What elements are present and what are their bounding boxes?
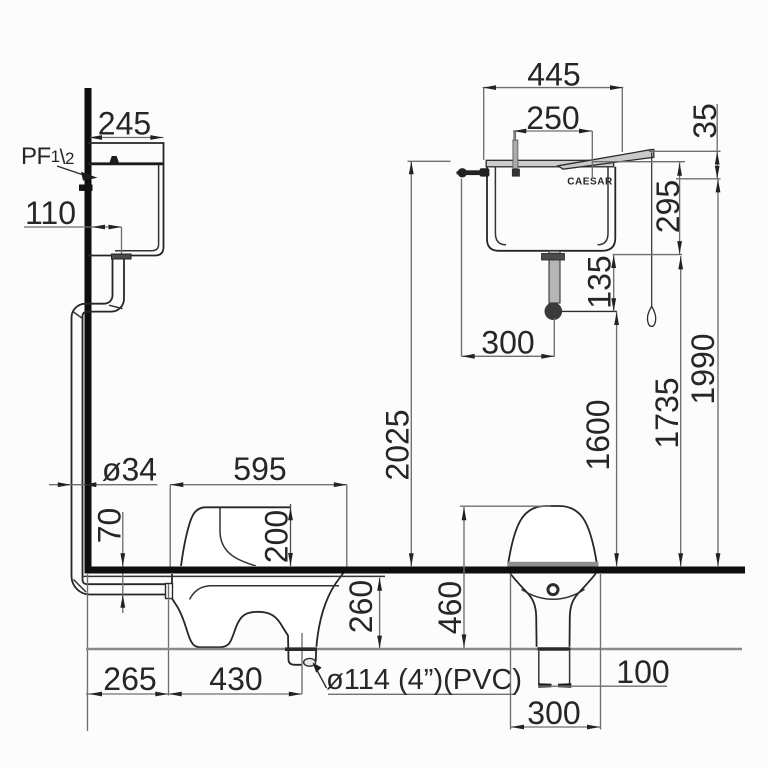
svg-text:300: 300 [481, 325, 534, 361]
high tank lid seam [88, 162, 164, 165]
dimension 595 [170, 484, 347, 486]
wall [85, 88, 92, 574]
flush pipe: down run, upper elbows, wall drop [83, 259, 167, 584]
base foot marks / 100 arrows [538, 683, 551, 688]
dimension 70 [122, 512, 124, 613]
extension ball centre [553, 318, 555, 356]
dimension 35 [716, 104, 718, 179]
svg-text:ø114 (4”)(PVC): ø114 (4”)(PVC) [326, 664, 522, 696]
svg-text:CAESAR: CAESAR [567, 177, 613, 188]
dimension o34 [49, 484, 158, 486]
svg-text:295: 295 [650, 180, 686, 233]
supply fitting on wall [79, 185, 93, 191]
flush pipe (front) [549, 251, 560, 303]
bowl front view: dome [508, 506, 596, 563]
extension 300 front left [510, 574, 512, 730]
svg-text:265: 265 [103, 661, 156, 697]
pipe end cap [166, 584, 168, 594]
svg-text:1600: 1600 [580, 399, 616, 470]
extension 35 bottom [676, 178, 721, 180]
floor dark segment under pedestal [538, 647, 571, 651]
high tank inner wall [115, 164, 159, 251]
dimension 1600 [616, 312, 618, 567]
dimension 445 [483, 87, 624, 89]
extension 595 left [169, 485, 171, 571]
svg-text:1990: 1990 [685, 333, 721, 404]
outlet centre line [301, 633, 303, 694]
leader o114 [314, 665, 327, 689]
bolt hole [548, 585, 558, 595]
svg-text:250: 250 [526, 100, 579, 136]
supply stop valve [457, 171, 463, 174]
dimension 295 [679, 162, 681, 254]
svg-text:135: 135 [582, 255, 618, 308]
extension 265/430 boundary [168, 584, 170, 696]
pedestal base sides [538, 651, 540, 685]
svg-text:445: 445 [527, 57, 580, 93]
chain handle [648, 306, 656, 326]
bowl seat-level thin line [82, 575, 385, 577]
dimension 100 [538, 685, 667, 687]
extension tank bottom right [613, 254, 682, 256]
pull chain [651, 153, 653, 307]
svg-text:1735: 1735 [649, 377, 685, 448]
trapway outlet foot [288, 649, 302, 665]
elbow outlet line [561, 310, 617, 312]
dimension 2025 [410, 162, 412, 566]
svg-text:460: 460 [432, 581, 468, 634]
floor line [86, 648, 742, 650]
flush elbow ball [545, 303, 563, 321]
dimension 460 [460, 505, 551, 507]
seat/datum thick line [85, 567, 746, 574]
cistern front view: tank body [487, 167, 615, 251]
dimension 200 [290, 504, 292, 566]
svg-text:200: 200 [259, 510, 295, 563]
cistern inner wall right [598, 167, 609, 245]
svg-text:430: 430 [209, 661, 262, 697]
dimension 300 (front) [511, 726, 601, 728]
dimension 245 [90, 137, 164, 139]
svg-text:70: 70 [92, 508, 128, 544]
dimension 300 (cistern) [462, 355, 555, 357]
svg-text:2025: 2025 [380, 409, 416, 480]
svg-text:ø34: ø34 [102, 452, 157, 488]
elbow joint line left [74, 312, 84, 319]
inlet spud flange [166, 584, 173, 599]
dimension 1990 [717, 179, 719, 566]
flush button rod [514, 131, 516, 141]
dimension 135 [613, 255, 615, 312]
dimension 430 [169, 693, 303, 695]
extension 300 front right [600, 574, 602, 730]
pedestal right side [570, 574, 596, 647]
shield curve [522, 589, 585, 599]
cistern lid band [486, 160, 614, 167]
extension lid bottom right [592, 161, 685, 163]
cistern inner wall left [495, 167, 506, 245]
extension lid tip right [649, 150, 721, 152]
svg-text:260: 260 [343, 580, 379, 633]
elbow joint line floor [74, 580, 87, 593]
pedestal left side [510, 574, 536, 647]
bowl side view: upper tank piece [181, 507, 291, 566]
svg-text:100: 100 [616, 654, 669, 690]
dimension 1735 [680, 256, 682, 566]
extension 595 right [346, 485, 348, 570]
flush lever knob on lid [110, 156, 119, 163]
svg-text:35: 35 [687, 103, 723, 139]
svg-text:595: 595 [233, 451, 286, 487]
leader to supply point [57, 166, 88, 177]
tank outlet flange [112, 254, 132, 259]
dimension 250 [513, 130, 592, 132]
bowl upper inner line [220, 508, 256, 566]
dimension 265 [86, 693, 169, 695]
extension line pipe centre [121, 227, 123, 257]
high tank (side view) body [88, 143, 164, 256]
extension tank top left [408, 160, 451, 162]
floor dark segment under trapway outlet [285, 647, 317, 651]
bowl inner top line [190, 586, 340, 600]
dimension 260 [379, 578, 381, 649]
svg-text:110: 110 [25, 195, 76, 231]
bowl side view: lower body [172, 566, 345, 647]
extension wall lower [87, 574, 89, 731]
supply riser extension [461, 179, 463, 357]
tilted cover blade [558, 149, 654, 169]
svg-text:300: 300 [527, 695, 580, 731]
seat shadow band [507, 562, 598, 567]
svg-text:245: 245 [98, 106, 151, 142]
outlet pipe ellipse [304, 658, 316, 666]
elbow joint line upper [109, 305, 123, 308]
